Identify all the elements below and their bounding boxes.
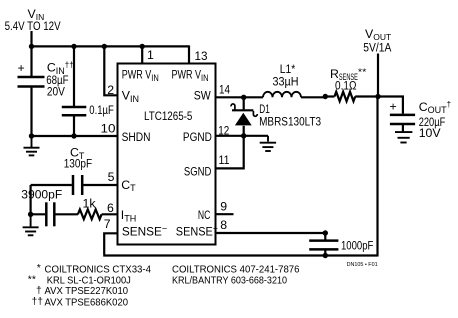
svg-text:KRL SL-C1-OR100J: KRL SL-C1-OR100J — [47, 276, 131, 287]
ground G2 (CT/3900pF) — [23, 214, 39, 235]
svg-text:8: 8 — [220, 218, 227, 232]
svg-text:MBRS130LT3: MBRS130LT3 — [259, 115, 321, 129]
svg-text:6: 6 — [107, 201, 114, 215]
svg-text:DN105 • F01: DN105 • F01 — [347, 262, 378, 268]
inductor L1 coil — [263, 92, 301, 98]
wire ITH line pin 6 — [31, 213, 117, 215]
svg-text:5.4V TO 12V: 5.4V TO 12V — [5, 19, 62, 33]
wire SW pin 14 — [216, 96, 263, 98]
IC U1 LTC1265-5 body — [118, 64, 216, 245]
svg-text:5V/1A: 5V/1A — [363, 40, 392, 54]
svg-text:0.1Ω: 0.1Ω — [335, 78, 357, 92]
svg-text:COILTRONICS 407-241-7876: COILTRONICS 407-241-7876 — [172, 265, 300, 276]
wire VOUT stub — [377, 54, 379, 97]
svg-text:3900pF: 3900pF — [21, 187, 62, 201]
wire VOUT node to COUT — [378, 97, 403, 114]
wire RSENSE right to VOUT node — [355, 95, 378, 97]
wire D1 bottom — [243, 126, 245, 136]
wire D1 top — [243, 97, 245, 109]
wire COUT to ground — [402, 125, 404, 132]
wire RSENSE left — [325, 95, 334, 97]
svg-text:1k: 1k — [83, 196, 97, 210]
svg-text:SHDN: SHDN — [122, 130, 151, 144]
svg-text:1000pF: 1000pF — [341, 239, 374, 253]
svg-text:12: 12 — [218, 124, 229, 138]
svg-text:SENSE−: SENSE− — [122, 224, 167, 239]
wire pin 1 drop — [141, 46, 143, 63]
svg-text:5: 5 — [108, 170, 115, 184]
ground G4 (COUT) — [395, 132, 412, 142]
wire pin 13 drop — [188, 45, 190, 63]
svg-text:11: 11 — [219, 153, 230, 167]
svg-text:SENSE+: SENSE+ — [176, 224, 218, 239]
wire SENSE+ pin 8 — [216, 232, 325, 234]
capacitor C4 1000pF plates — [309, 239, 338, 242]
wire CT line pin 5 — [31, 184, 117, 186]
diode D1 schottky — [231, 104, 257, 116]
wire pin 2 VIN — [104, 46, 117, 95]
svg-text:10V: 10V — [419, 126, 442, 140]
wire CIN top — [30, 46, 32, 77]
capacitor CT 130pF plates — [72, 175, 75, 195]
wire L1 to RSENSE node — [301, 96, 325, 98]
svg-text:+: + — [390, 100, 397, 114]
wire VOUT right drop — [376, 97, 378, 257]
svg-text:+: + — [18, 61, 25, 75]
wire CIN bottom — [30, 87, 32, 136]
wire C2 bottom — [73, 115, 75, 136]
resistor R1 1k zigzag — [78, 209, 102, 219]
ground G1 (CIN/SHDN) — [24, 136, 40, 155]
svg-text:2: 2 — [107, 83, 114, 97]
svg-text:*: * — [37, 263, 41, 274]
wire C4 top — [324, 233, 326, 240]
capacitor CIN plates — [18, 76, 45, 79]
svg-text:SGND: SGND — [184, 165, 212, 179]
ground G3 (PGND) — [260, 136, 276, 151]
svg-text:COILTRONICS CTX33-4: COILTRONICS CTX33-4 — [45, 265, 152, 276]
capacitor C2 0.1uF plates — [62, 106, 87, 109]
wire CT left drop — [30, 185, 32, 214]
svg-text:130pF: 130pF — [64, 157, 93, 171]
resistor RSENSE zigzag — [335, 92, 356, 102]
svg-text:†: † — [36, 285, 42, 296]
svg-text:14: 14 — [219, 82, 230, 96]
svg-text:10: 10 — [101, 122, 116, 136]
svg-text:0.1µF: 0.1µF — [89, 103, 114, 117]
svg-text:††: †† — [32, 296, 44, 307]
svg-text:LTC1265-5: LTC1265-5 — [144, 109, 193, 123]
svg-text:33µH: 33µH — [273, 75, 299, 89]
wire PGND pin 12 — [216, 135, 268, 137]
svg-text:7: 7 — [104, 217, 111, 231]
wire SENSE- pin 7 — [103, 233, 377, 255]
wire VIN top rail — [32, 45, 190, 47]
wire C2 top — [73, 46, 75, 107]
wire SGND pin 11 — [216, 136, 244, 169]
wire C4 bottom — [324, 250, 326, 256]
svg-text:9: 9 — [220, 200, 227, 214]
svg-text:13: 13 — [195, 49, 208, 63]
svg-text:KRL/BANTRY 603-668-3210: KRL/BANTRY 603-668-3210 — [172, 275, 287, 286]
svg-text:SW: SW — [194, 89, 211, 103]
wire NC stub pin 9 — [216, 213, 234, 215]
wire SHDN line — [32, 135, 118, 137]
svg-text:AVX TPSE686K020: AVX TPSE686K020 — [45, 297, 129, 308]
svg-text:20V: 20V — [47, 85, 66, 99]
svg-text:**: ** — [28, 274, 36, 285]
svg-text:1: 1 — [147, 48, 154, 62]
capacitor COUT plates — [390, 114, 415, 117]
wire VIN stub — [30, 31, 32, 46]
svg-text:AVX TPSE227K010: AVX TPSE227K010 — [45, 286, 129, 297]
svg-text:NC: NC — [198, 208, 211, 222]
capacitor C3 3900pF plates — [45, 202, 48, 226]
svg-text:PGND: PGND — [183, 130, 212, 144]
